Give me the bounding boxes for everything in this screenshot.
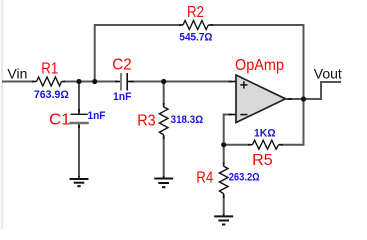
- svg-text:Vout: Vout: [314, 66, 342, 82]
- svg-text:1nF: 1nF: [113, 91, 132, 103]
- svg-text:C2: C2: [112, 56, 132, 73]
- svg-text:1KΩ: 1KΩ: [254, 128, 276, 140]
- svg-text:263.2Ω: 263.2Ω: [229, 172, 260, 184]
- svg-text:Vin: Vin: [7, 66, 27, 82]
- svg-text:OpAmp: OpAmp: [235, 57, 284, 74]
- svg-text:R1: R1: [41, 60, 58, 77]
- svg-text:318.3Ω: 318.3Ω: [171, 114, 204, 126]
- svg-text:R2: R2: [187, 4, 204, 21]
- svg-text:C1: C1: [49, 112, 71, 129]
- svg-text:545.7Ω: 545.7Ω: [179, 32, 212, 44]
- svg-text:763.9Ω: 763.9Ω: [34, 89, 69, 101]
- svg-text:R3: R3: [137, 113, 156, 130]
- svg-text:R5: R5: [252, 152, 273, 169]
- svg-text:1nF: 1nF: [88, 110, 106, 122]
- svg-text:R4: R4: [196, 169, 213, 186]
